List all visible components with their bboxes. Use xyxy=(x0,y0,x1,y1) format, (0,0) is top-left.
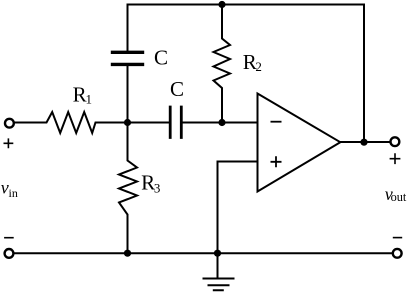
svg-text:out: out xyxy=(391,190,407,204)
svg-text:1: 1 xyxy=(86,92,93,107)
svg-text:C: C xyxy=(170,77,184,101)
svg-text:2: 2 xyxy=(255,59,262,74)
svg-text:C: C xyxy=(154,46,168,70)
svg-text:3: 3 xyxy=(154,180,161,195)
svg-text:in: in xyxy=(9,186,18,200)
svg-text:R: R xyxy=(73,82,87,106)
